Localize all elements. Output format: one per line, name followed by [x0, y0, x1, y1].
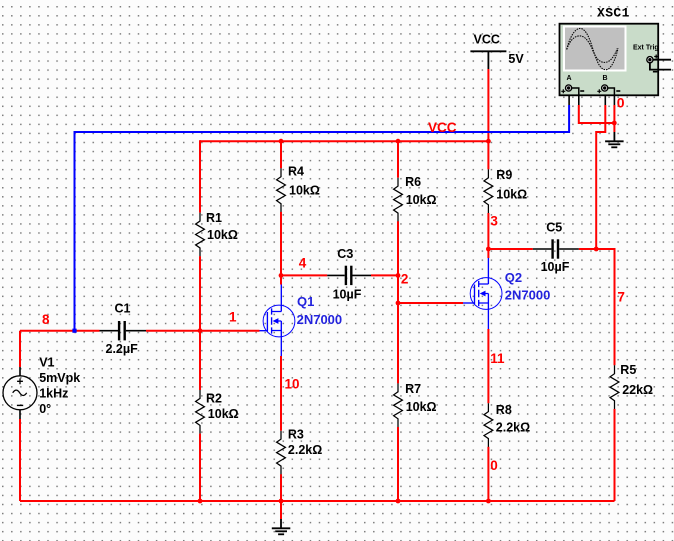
- svg-text:R8: R8: [496, 403, 512, 417]
- svg-text:22kΩ: 22kΩ: [622, 383, 653, 397]
- junction dot node 2: [396, 273, 401, 278]
- wire input from V1: [20, 330, 100, 332]
- svg-text:R7: R7: [405, 382, 421, 396]
- svg-text:R4: R4: [288, 164, 304, 178]
- svg-text:C1: C1: [115, 302, 131, 316]
- svg-text:0: 0: [490, 458, 498, 473]
- wire R9 top: [487, 140, 489, 169]
- wire R2 bottom to ground rail: [199, 434, 201, 501]
- wire gate node to Q2 gate: [398, 302, 463, 304]
- svg-text:10kΩ: 10kΩ: [496, 188, 527, 202]
- wire R4 top: [280, 140, 282, 168]
- svg-text:R6: R6: [405, 175, 421, 189]
- svg-text:3: 3: [490, 214, 498, 229]
- capacitor C1: [100, 302, 147, 357]
- resistor R9: [484, 168, 527, 213]
- wire node4 stub to Q1 drain: [280, 275, 282, 284]
- wire C3 to node 2: [371, 274, 398, 276]
- junction dot R4 rail: [279, 139, 284, 144]
- wire scope A+ stub: [568, 96, 570, 106]
- svg-text:2.2µF: 2.2µF: [106, 342, 139, 356]
- svg-text:R5: R5: [620, 363, 636, 377]
- wire R1 bottom to input node: [199, 256, 201, 331]
- svg-text:Q2: Q2: [505, 270, 522, 285]
- svg-text:R2: R2: [206, 392, 222, 406]
- svg-text:VCC: VCC: [428, 120, 457, 135]
- oscilloscope XSC1: [560, 6, 672, 96]
- junction dot R2 rail: [198, 499, 203, 504]
- svg-text:8: 8: [42, 312, 50, 327]
- wire R7 bottom to ground rail: [397, 427, 399, 501]
- ext trig terminal: [647, 57, 653, 63]
- transistor Q2 2N7000: [463, 258, 550, 329]
- wire C5 to node 7 corner: [579, 248, 615, 250]
- wire C1 to Q1 gate: [146, 330, 260, 332]
- svg-text:C5: C5: [546, 221, 562, 235]
- wire node7 column down to R5: [614, 248, 616, 365]
- svg-text:2: 2: [401, 272, 409, 287]
- ground (scope): [605, 132, 624, 147]
- svg-text:10µF: 10µF: [333, 288, 362, 302]
- source V1: [3, 331, 80, 501]
- svg-text:R9: R9: [496, 168, 512, 182]
- svg-text:10kΩ: 10kΩ: [207, 228, 238, 242]
- capacitor C3: [327, 247, 371, 302]
- junction dot gate node: [396, 301, 401, 306]
- wire gate node to R7: [397, 303, 399, 383]
- svg-text:1: 1: [229, 310, 237, 325]
- wire R4 bottom to node 4: [280, 212, 282, 276]
- junction dot R7 rail: [396, 499, 401, 504]
- wire ground stem: [280, 501, 282, 519]
- junction dot node 7: [594, 247, 599, 252]
- svg-text:Ext Trig: Ext Trig: [633, 45, 659, 52]
- wire node3 stub to Q2 drain: [487, 249, 489, 258]
- resistor R5: [610, 363, 653, 409]
- wire VCC symbol to rail: [487, 69, 489, 141]
- junction dot node 4: [279, 273, 284, 278]
- wire Q2 source to R8: [487, 329, 489, 403]
- junction dot R3 rail: [279, 499, 284, 504]
- svg-text:2N7000: 2N7000: [297, 312, 343, 327]
- wire node4 to C3: [281, 274, 327, 276]
- resistor R8: [484, 403, 530, 447]
- svg-text:10kΩ: 10kΩ: [406, 193, 437, 207]
- wire scope B- stub: [613, 96, 615, 106]
- resistor R3: [277, 428, 323, 475]
- power VCC symbol: [470, 51, 506, 69]
- svg-text:10kΩ: 10kΩ: [406, 400, 437, 414]
- svg-text:Q1: Q1: [297, 294, 314, 309]
- svg-text:C3: C3: [337, 247, 353, 261]
- resistor R4: [277, 164, 320, 212]
- svg-text:0: 0: [617, 95, 625, 111]
- svg-text:XSC1: XSC1: [597, 6, 630, 21]
- svg-text:4: 4: [299, 256, 307, 271]
- wire scope A- stub: [578, 96, 580, 106]
- resistor R1: [196, 211, 238, 256]
- svg-text:10: 10: [285, 377, 300, 392]
- wire node3 to C5: [488, 248, 532, 250]
- wire scope A+ blue to node 8: [75, 105, 570, 331]
- wire scope B+ to node 7: [596, 105, 605, 249]
- wire R5 bottom to ground rail corner: [614, 409, 616, 501]
- svg-text:R1: R1: [206, 211, 222, 225]
- svg-text:2N7000: 2N7000: [505, 288, 551, 303]
- svg-text:7: 7: [617, 290, 625, 305]
- svg-text:10kΩ: 10kΩ: [289, 184, 320, 198]
- junction dot node 1: [198, 328, 203, 333]
- wire input node to R2: [199, 331, 201, 390]
- wire scope B- to ground node: [613, 105, 615, 132]
- junction dot R6 rail: [396, 139, 401, 144]
- wire R6 top: [397, 140, 399, 178]
- svg-text:2.2kΩ: 2.2kΩ: [496, 421, 530, 435]
- junction dot VCC rail: [486, 139, 491, 144]
- svg-text:1kHz: 1kHz: [39, 386, 68, 400]
- wire R8 bottom to ground rail: [487, 447, 489, 501]
- svg-text:5V: 5V: [508, 52, 524, 66]
- junction dot R8 rail: [486, 499, 491, 504]
- resistor R7: [394, 382, 437, 427]
- resistor R6: [394, 175, 437, 221]
- svg-text:VCC: VCC: [474, 33, 500, 47]
- svg-text:10µF: 10µF: [541, 260, 570, 274]
- wire R1 column top: [199, 140, 201, 212]
- junction dot node 8 (blue): [72, 329, 76, 333]
- wire R9 bottom to node 3: [487, 213, 489, 249]
- capacitor C5: [533, 221, 579, 274]
- svg-text:B: B: [603, 75, 608, 82]
- transistor Q1 2N7000: [260, 285, 343, 357]
- wire R3 to ground rail: [280, 474, 282, 501]
- svg-text:2.2kΩ: 2.2kΩ: [288, 443, 322, 457]
- wire ground rail bottom: [20, 500, 615, 502]
- junction dot scope ground: [612, 121, 617, 126]
- svg-text:V1: V1: [39, 355, 54, 369]
- svg-text:11: 11: [490, 351, 505, 366]
- resistor R2: [196, 390, 239, 434]
- wire scope A- to ground node: [579, 105, 615, 123]
- ground (bottom): [272, 519, 291, 534]
- wire scope B+ stub: [604, 96, 606, 106]
- svg-text:10kΩ: 10kΩ: [208, 407, 239, 421]
- svg-text:R3: R3: [288, 428, 304, 442]
- wire R6 bottom through node2 to gate node: [397, 221, 399, 303]
- wire VCC rail (net VCC): [200, 140, 488, 142]
- svg-text:A: A: [567, 75, 572, 82]
- wire Q1 source to R3: [280, 356, 282, 431]
- svg-text:0°: 0°: [39, 402, 51, 416]
- junction dot node 3: [486, 247, 491, 252]
- svg-text:5mVpk: 5mVpk: [39, 371, 80, 385]
